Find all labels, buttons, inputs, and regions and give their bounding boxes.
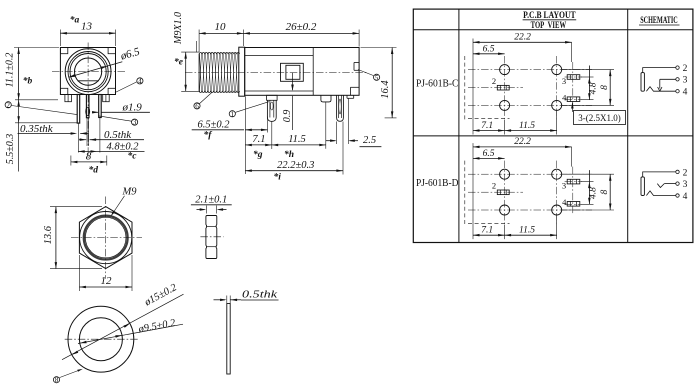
dimension 13.6 (nut across corners) <box>43 207 102 269</box>
washer side profile <box>227 304 230 375</box>
side view centerline <box>185 72 367 74</box>
dimension 6.5±0.2 *f <box>192 117 268 141</box>
table header P.C.B LAYOUT / TOP VIEW <box>523 11 577 31</box>
pcb mounting holes <box>500 65 562 111</box>
svg-text:8: 8 <box>55 376 59 384</box>
side view threaded barrel <box>199 52 240 92</box>
svg-text:4.8: 4.8 <box>589 82 599 94</box>
front view barrel circles <box>65 49 111 95</box>
pcb dimension 7.1 / 11.5 <box>473 110 557 135</box>
pcb dimension 4.8 <box>581 66 599 100</box>
table header SCHEMATIC <box>639 16 680 26</box>
svg-text:0.5thk: 0.5thk <box>104 129 132 141</box>
callout 2 with leader <box>5 101 77 114</box>
front pin 2 (left lug) <box>77 95 80 153</box>
svg-text:M9X1.0: M9X1.0 <box>173 12 184 45</box>
side view body <box>245 48 359 99</box>
hex nut centerlines <box>71 197 142 279</box>
svg-text:4: 4 <box>562 197 567 207</box>
dimension 16.4 (body height) <box>361 48 397 118</box>
hex nut M9 outline <box>79 207 132 269</box>
svg-text:16.4: 16.4 <box>380 80 391 99</box>
dimension 26±0.2 (body length) <box>243 21 359 47</box>
svg-text:PJ-601B-C: PJ-601B-C <box>416 78 459 90</box>
side pin 4 (rear lug) <box>337 95 349 174</box>
dimension ø6.5 (jack bore) <box>69 46 142 78</box>
svg-text:2: 2 <box>683 64 688 74</box>
schematic sleeve bar pin 2 <box>641 168 688 195</box>
svg-text:3-(2.5X1.0): 3-(2.5X1.0) <box>578 113 621 123</box>
svg-text:11.1±0.2: 11.1±0.2 <box>5 53 16 88</box>
nut side centerline <box>200 236 223 238</box>
svg-text:*g: *g <box>253 149 263 160</box>
schematic tip contact pin 4 <box>646 191 687 202</box>
side pin 1 (front lug) <box>267 95 278 149</box>
svg-text:8: 8 <box>600 189 610 194</box>
svg-text:11.5: 11.5 <box>519 121 535 131</box>
svg-text:3: 3 <box>562 76 566 86</box>
label M9X1.0 (thread) <box>173 12 197 52</box>
svg-text:13: 13 <box>81 21 93 33</box>
schematic switch contact pin 3 <box>657 180 687 190</box>
label M9 with leader <box>111 186 137 216</box>
svg-text:1: 1 <box>231 110 235 118</box>
svg-text:*i: *i <box>274 171 282 182</box>
svg-text:22.2: 22.2 <box>514 137 531 147</box>
svg-text:*h: *h <box>284 149 294 160</box>
svg-text:TOP VIEW: TOP VIEW <box>531 21 567 31</box>
svg-text:7.1: 7.1 <box>252 134 265 145</box>
side pin 3 (center boss) <box>321 95 331 149</box>
front view mounting tabs <box>65 95 109 102</box>
svg-text:PJ-601B-D: PJ-601B-D <box>416 177 459 189</box>
callout 8 with leader <box>53 369 82 384</box>
schematic tip contact pin 4 <box>646 87 687 98</box>
svg-text:*b: *b <box>23 76 33 87</box>
table frame <box>413 9 693 242</box>
svg-text:0.5thk: 0.5thk <box>242 288 278 300</box>
svg-text:4.8: 4.8 <box>589 187 599 199</box>
svg-text:4: 4 <box>562 92 567 102</box>
pcb pad 2 <box>492 181 509 195</box>
dimension 2.5 <box>326 135 381 147</box>
side view switch window <box>281 63 304 81</box>
dimension 2.1±0.1 (nut thickness) <box>191 194 232 213</box>
front pin 3 (center lug) <box>86 95 90 147</box>
dimension 11.5 *h <box>272 134 326 160</box>
pcb pad 4 <box>562 197 580 207</box>
svg-text:13.6: 13.6 <box>43 225 54 244</box>
front view centerlines <box>52 43 125 160</box>
pcb pad 3 <box>562 75 580 86</box>
pcb dimension 7.1 / 11.5 <box>473 215 557 240</box>
svg-text:2: 2 <box>6 101 10 109</box>
front view body <box>60 48 115 95</box>
callout 5 with leader <box>358 70 380 82</box>
dimension 0.9 (wall) <box>282 73 294 130</box>
svg-text:ø1.9: ø1.9 <box>122 101 143 113</box>
svg-text:*e: *e <box>174 57 184 68</box>
pcb dimension 22.2 <box>473 137 572 239</box>
pcb dashed board edge <box>464 161 466 225</box>
svg-text:22.2±0.3: 22.2±0.3 <box>277 160 314 171</box>
svg-text:6.5: 6.5 <box>483 44 495 54</box>
callout 3 with leader <box>99 116 138 127</box>
svg-text:8: 8 <box>86 150 92 162</box>
washer rings <box>68 306 134 372</box>
pcb dimension 6.5 <box>473 44 505 55</box>
pcb mounting holes <box>500 169 562 215</box>
svg-text:2: 2 <box>492 76 496 86</box>
dimension *a 13 (top width) <box>60 15 115 47</box>
svg-text:2.1±0.1: 2.1±0.1 <box>195 194 227 205</box>
svg-text:12: 12 <box>101 275 113 287</box>
svg-text:*c: *c <box>128 151 138 162</box>
pcb pad 3 <box>562 179 580 190</box>
label ø1.9 with arrow to pin 4 <box>92 101 150 113</box>
svg-text:7.1: 7.1 <box>481 226 493 236</box>
front view corner notches <box>60 48 115 95</box>
svg-text:2.5: 2.5 <box>363 135 376 146</box>
svg-text:10: 10 <box>215 21 227 33</box>
svg-text:6: 6 <box>195 102 199 110</box>
svg-text:7.1: 7.1 <box>481 121 493 131</box>
svg-text:0.9: 0.9 <box>282 110 293 123</box>
dimension 8 *d (pin span) <box>71 150 107 175</box>
pcb pad 4 <box>562 92 580 102</box>
dimension *e (barrel diameter) <box>174 52 200 91</box>
svg-text:11.5: 11.5 <box>288 134 306 145</box>
svg-text:2: 2 <box>492 181 496 191</box>
pcb centerlines <box>468 161 592 225</box>
svg-text:*a: *a <box>70 15 80 26</box>
washer centerline <box>65 338 139 340</box>
pcb pad 2 <box>492 76 509 90</box>
svg-text:3: 3 <box>562 181 566 191</box>
side view flange <box>239 47 245 96</box>
pcb dimension 6.5 <box>473 149 505 160</box>
dimension 0.5thk (washer thickness) <box>214 288 279 303</box>
dimension ø9.5±0.2 <box>78 318 183 344</box>
dimension 22.2±0.3 *i <box>245 160 343 183</box>
front pin 4 (right lug) <box>99 95 102 153</box>
svg-text:4: 4 <box>683 192 688 202</box>
svg-text:6.5: 6.5 <box>483 149 495 159</box>
label 0.35thk with leader arrow to pin 2 <box>18 123 89 135</box>
svg-text:3: 3 <box>683 180 688 190</box>
dimension 5.5±0.3 (pin length) <box>5 100 80 172</box>
svg-text:26±0.2: 26±0.2 <box>286 21 317 33</box>
dimension 10 (barrel length) <box>199 21 243 52</box>
pcb dimension 8 <box>562 70 615 106</box>
svg-text:4: 4 <box>683 88 688 98</box>
svg-text:*d: *d <box>89 164 99 175</box>
pcb centerlines <box>468 56 592 120</box>
svg-text:3: 3 <box>683 76 688 86</box>
nut side profile <box>206 216 217 259</box>
svg-text:*f: *f <box>204 129 213 140</box>
pcb dimension 4.8 <box>581 170 599 204</box>
dimension 4.8±0.2 *c <box>78 141 144 161</box>
dimension 12 (nut across flats) <box>79 255 132 291</box>
svg-text:3: 3 <box>133 119 137 127</box>
svg-text:6.5±0.2: 6.5±0.2 <box>197 119 230 130</box>
pcb note 3-(2.5X1.0) <box>571 102 625 125</box>
schematic sleeve bar pin 2 <box>641 64 688 91</box>
svg-text:22.2: 22.2 <box>514 32 531 42</box>
svg-text:5.5±0.3: 5.5±0.3 <box>5 134 16 165</box>
svg-text:5: 5 <box>375 74 379 82</box>
callout 4 with leader <box>115 77 143 92</box>
svg-text:2: 2 <box>683 168 688 178</box>
svg-text:8: 8 <box>600 85 610 90</box>
dimension 7.1 *g <box>245 96 271 174</box>
pcb dimension 22.2 <box>473 32 572 134</box>
label 0.5thk with leader arrow to pin 3 <box>79 129 144 141</box>
callout 1 with leader <box>229 102 269 119</box>
svg-text:4: 4 <box>138 77 142 85</box>
pcb dimension 8 <box>562 174 615 210</box>
callout 6 with leader <box>194 93 212 111</box>
pcb dashed board edge <box>464 56 466 120</box>
svg-text:M9: M9 <box>122 186 138 197</box>
schematic switch contact pin 3 <box>658 76 688 92</box>
svg-text:11.5: 11.5 <box>519 226 535 236</box>
dimension ø15±0.2 <box>62 282 184 360</box>
dimension 11.1±0.2 (left height) and *b <box>5 48 59 100</box>
